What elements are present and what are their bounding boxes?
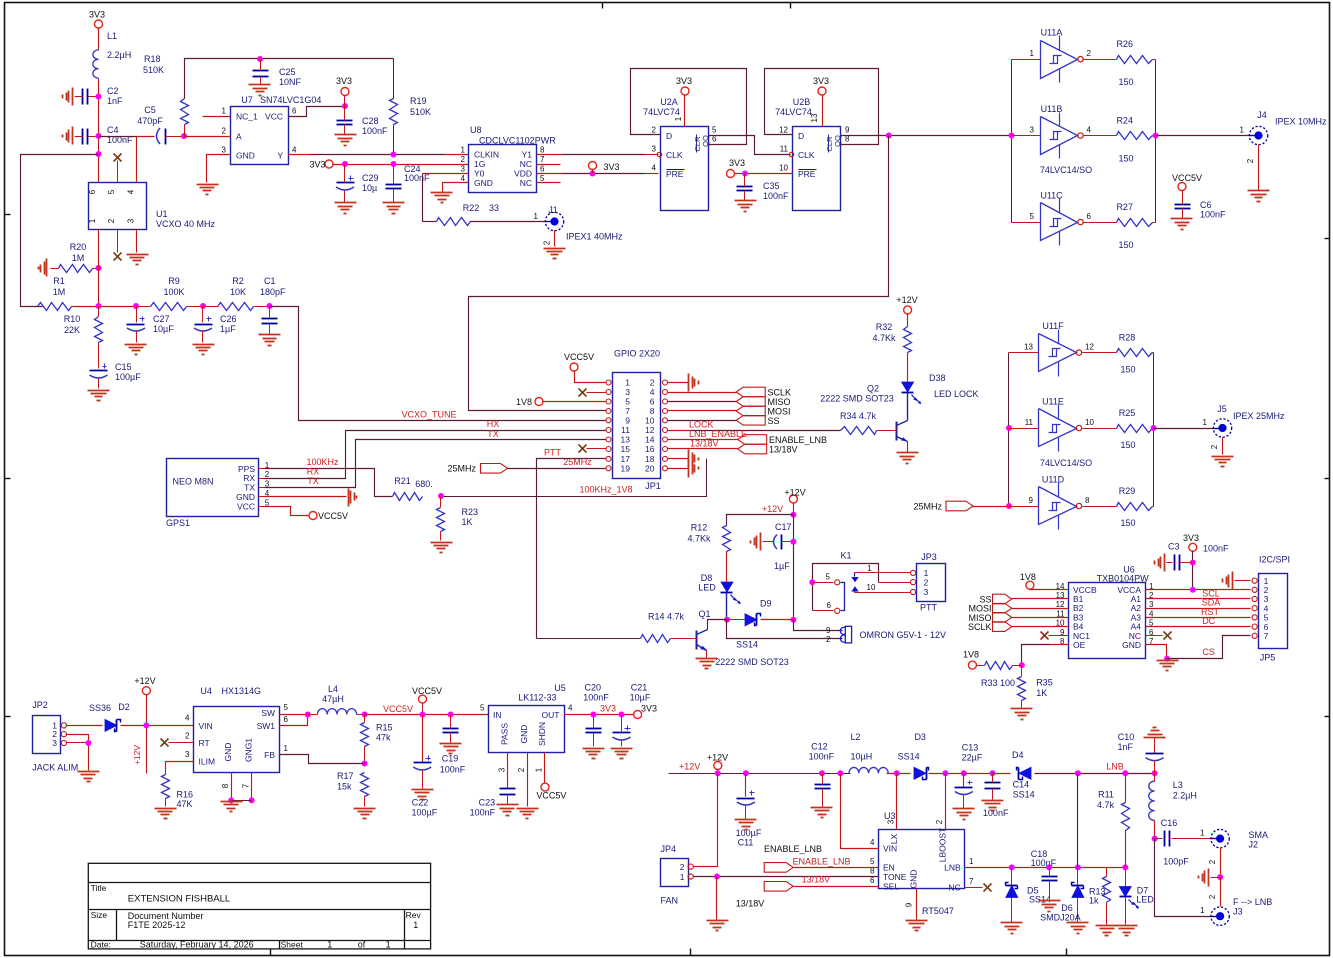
svg-text:150: 150 — [1120, 365, 1135, 375]
svg-text:R24: R24 — [1116, 116, 1133, 126]
svg-text:1: 1 — [88, 218, 97, 223]
pin 3 JP5 — [1252, 596, 1257, 601]
power 1V8 at R33 — [968, 661, 976, 669]
resistor R11 — [1122, 803, 1130, 831]
svg-text:C14: C14 — [1013, 780, 1030, 790]
svg-text:LED LOCK: LED LOCK — [934, 389, 979, 399]
svg-text:1: 1 — [284, 744, 289, 753]
svg-text:10K: 10K — [230, 287, 246, 297]
junction R11 rail node — [1122, 770, 1128, 776]
connector J3 F-LNB — [1211, 907, 1229, 925]
wire JP1 pin14 to ENABLE_LNB — [668, 439, 738, 441]
svg-text:PASS: PASS — [499, 723, 509, 745]
svg-text:VCC5V: VCC5V — [412, 686, 442, 696]
inductor L1 — [93, 50, 99, 78]
net flag 25MHz at U11D — [946, 501, 973, 511]
power VCC5V at JP1 pin1 — [570, 363, 578, 371]
svg-text:510K: 510K — [143, 65, 164, 75]
svg-text:of: of — [358, 940, 366, 950]
relay contact armature — [841, 583, 845, 611]
IC U1 VCXO 40 MHz — [89, 183, 147, 230]
svg-text:5: 5 — [480, 704, 485, 713]
svg-text:2222 SMD SOT23: 2222 SMD SOT23 — [820, 394, 894, 404]
capacitor C6 — [1175, 204, 1191, 206]
power +12V at relay — [789, 495, 797, 503]
svg-text:C29: C29 — [362, 173, 379, 183]
svg-text:Date:: Date: — [91, 940, 111, 950]
wire LBOOST pin2 to rail — [945, 774, 947, 830]
capacitor C26 polarized — [195, 324, 213, 326]
svg-text:TX: TX — [244, 483, 255, 493]
svg-text:2: 2 — [650, 378, 655, 388]
svg-text:PRE: PRE — [798, 169, 816, 179]
wire input U11A — [1012, 59, 1041, 61]
svg-text:4.7Kk: 4.7Kk — [872, 333, 896, 343]
wire 3V3 to L1 — [98, 28, 100, 51]
IC U2B 74LVC74 — [793, 127, 841, 211]
wire input U11B — [1012, 135, 1041, 137]
svg-text:100nF: 100nF — [470, 808, 496, 818]
svg-text:10µ: 10µ — [362, 183, 377, 193]
svg-text:8: 8 — [221, 783, 230, 788]
svg-text:150: 150 — [1118, 77, 1133, 87]
svg-text:R25: R25 — [1119, 408, 1136, 418]
svg-text:FB: FB — [264, 750, 275, 760]
svg-text:3: 3 — [625, 387, 630, 397]
svg-text:GPS1: GPS1 — [166, 518, 190, 528]
resistor R28 — [1117, 349, 1153, 357]
svg-text:NEO M8N: NEO M8N — [172, 477, 213, 487]
svg-text:SS14: SS14 — [898, 752, 920, 762]
net flag ENABLE_LNB at U3 — [764, 863, 793, 873]
capacitor C10 1nF — [1154, 738, 1156, 754]
junction C27 node — [133, 303, 139, 309]
svg-text:CLK: CLK — [798, 150, 815, 160]
svg-text:150: 150 — [1120, 440, 1135, 450]
junction D9 cathode node — [790, 617, 796, 623]
svg-text:10µH: 10µH — [851, 752, 873, 762]
svg-text:2: 2 — [265, 470, 270, 479]
diode D7 LED — [1125, 868, 1127, 887]
power 1V8 at JP1 pin5 — [535, 398, 543, 406]
svg-text:2: 2 — [652, 126, 657, 135]
connector JP4 FAN — [661, 859, 689, 887]
wire VDD to U2A PRE — [563, 173, 645, 175]
capacitor C17 1uF — [774, 535, 778, 550]
resistor R17 — [361, 773, 369, 797]
svg-text:+12V: +12V — [134, 676, 155, 686]
ground at U4 — [221, 801, 243, 803]
pin 4 JP5 — [1252, 606, 1257, 611]
svg-text:13/18V: 13/18V — [802, 875, 831, 885]
svg-text:IPEX 25MHz: IPEX 25MHz — [1233, 411, 1285, 421]
resistor R12 — [723, 526, 731, 552]
resistor R24 — [1117, 132, 1153, 140]
svg-text:C13: C13 — [962, 743, 979, 753]
wire JP4 pin1 to TONE — [694, 876, 879, 878]
ground at C29 — [335, 202, 357, 204]
svg-text:1: 1 — [386, 940, 391, 950]
wire C4 node to C5 area — [99, 136, 137, 138]
svg-text:Q2: Q2 — [867, 384, 879, 394]
svg-text:1: 1 — [1030, 49, 1035, 58]
wire +12V to R32 — [907, 314, 909, 327]
svg-text:150: 150 — [1118, 240, 1133, 250]
junction VCCA node — [1190, 587, 1196, 593]
power 3V3 (top left) — [95, 20, 103, 28]
diode D5 SS14 — [1011, 868, 1013, 885]
svg-text:FAN: FAN — [661, 896, 679, 906]
svg-text:IPEX1 40MHz: IPEX1 40MHz — [566, 232, 623, 242]
ground at J5 — [1212, 456, 1234, 458]
svg-text:100KHz: 100KHz — [306, 457, 339, 467]
wire J3 pin2 up — [1220, 878, 1222, 907]
svg-text:C21: C21 — [631, 683, 648, 693]
svg-text:10: 10 — [867, 583, 876, 592]
wire U8 NC pin7 stub — [537, 164, 561, 166]
svg-text:2: 2 — [185, 732, 190, 741]
ground at C22 — [412, 789, 434, 791]
diode D8 LED — [721, 582, 733, 592]
svg-text:4: 4 — [461, 174, 466, 183]
junction D6 rail node — [1075, 770, 1081, 776]
pin 1 JP2 — [61, 723, 66, 728]
wire GND pin2 — [527, 753, 529, 807]
svg-text:1: 1 — [1203, 418, 1208, 427]
pin 6 K1 — [835, 608, 840, 613]
svg-text:D2: D2 — [118, 702, 130, 712]
connector JP1 GPIO 2X20 — [613, 373, 661, 479]
wire U1 pin1 down — [98, 230, 100, 307]
svg-text:R32: R32 — [876, 322, 893, 332]
wire net VCXO_TUNE to JP1 pin9 — [270, 307, 606, 421]
pin 1 JP5 — [1252, 578, 1257, 583]
ground at JP2 — [78, 771, 100, 773]
wire JP1 pin2 to ground — [668, 382, 689, 384]
resistor R15 — [361, 723, 369, 747]
pin 17 JP1 — [606, 456, 611, 461]
svg-text:VCC5V: VCC5V — [318, 511, 348, 521]
IC U5 LK112-33 — [489, 706, 565, 753]
wire 25MHz flag to bus — [973, 506, 1009, 508]
svg-text:Y: Y — [277, 151, 283, 161]
svg-text:+12V: +12V — [679, 762, 700, 772]
svg-text:100nF: 100nF — [1200, 210, 1226, 220]
capacitor C28 — [337, 120, 353, 122]
IC GPS1 NEO M8N — [167, 459, 259, 517]
svg-text:VCC: VCC — [237, 502, 255, 512]
svg-text:5: 5 — [540, 174, 545, 183]
wire output U11D — [1083, 506, 1117, 508]
svg-text:K1: K1 — [840, 551, 851, 561]
pin 2 GPS1 stub — [259, 478, 265, 480]
wire R11 top lead — [1125, 774, 1127, 803]
ground at R13 — [1096, 925, 1118, 927]
wire GPS GND to ground — [265, 496, 347, 498]
svg-text:GND: GND — [1122, 640, 1141, 650]
svg-text:13/18V: 13/18V — [769, 445, 798, 455]
wire U8 VDD stub — [537, 173, 563, 175]
wire D2 to U4 VIN — [121, 725, 194, 727]
svg-text:J1: J1 — [548, 205, 558, 215]
svg-text:R17: R17 — [337, 771, 354, 781]
svg-text:25MHz: 25MHz — [913, 502, 942, 512]
capacitor C16 100pF — [1155, 838, 1163, 840]
inductor L3 2.2uH — [1149, 781, 1155, 820]
svg-text:C10: C10 — [1118, 732, 1135, 742]
junction R11 D7 node — [1122, 864, 1128, 870]
junction C1 node — [267, 303, 273, 309]
wire R27 to output bus — [1153, 222, 1156, 224]
junction R20 node — [96, 265, 102, 271]
svg-text:RT5047: RT5047 — [922, 906, 954, 916]
svg-text:SS14: SS14 — [1013, 790, 1035, 800]
capacitor C5 — [157, 128, 161, 144]
svg-text:2: 2 — [461, 155, 466, 164]
junction C26 node — [200, 303, 206, 309]
wire A1 to JP5 pin3 — [1146, 598, 1251, 600]
svg-text:C26: C26 — [220, 314, 237, 324]
svg-text:74LVC14/SO: 74LVC14/SO — [1040, 165, 1092, 175]
wire U2A CLK stub — [645, 154, 659, 156]
svg-text:470pF: 470pF — [137, 116, 163, 126]
junction C25 node — [257, 56, 263, 62]
junction SW node — [305, 712, 311, 718]
junction C11 node — [743, 770, 749, 776]
svg-text:VCC5V: VCC5V — [1172, 173, 1202, 183]
power 3V3 at U2B CLR — [818, 87, 826, 95]
wire L3 to C16 node — [1154, 821, 1156, 839]
ground at C27 — [125, 344, 147, 346]
svg-text:1µF: 1µF — [774, 561, 790, 571]
wire MOSI to B2 — [1012, 608, 1069, 610]
wire +12V rail to R12 — [727, 515, 794, 526]
diode D2 SS36 — [105, 719, 117, 731]
capacitor C35 — [737, 186, 753, 188]
svg-text:ENABLE_LNB: ENABLE_LNB — [764, 844, 822, 854]
svg-text:TX: TX — [487, 429, 499, 439]
ground at C15 — [88, 390, 110, 392]
wire input U11C — [1012, 222, 1041, 224]
IC U3 RT5047 — [879, 830, 965, 889]
svg-text:C22: C22 — [412, 798, 429, 808]
svg-text:2: 2 — [517, 767, 526, 772]
svg-text:C4: C4 — [107, 125, 119, 135]
wire Q1 emitter to ground — [706, 651, 708, 658]
wire U4 GNG1 pin7 — [251, 773, 253, 801]
svg-text:R19: R19 — [410, 96, 427, 106]
svg-text:C3: C3 — [1168, 542, 1180, 552]
inverter U11E 74LVC14 — [1039, 409, 1077, 447]
no-connect U1 pin2 bottom — [117, 230, 119, 253]
svg-text:100nF: 100nF — [1031, 858, 1057, 868]
pin 7 JP1 — [606, 409, 611, 414]
wire D3 to LBOOST node — [929, 773, 964, 775]
inverter U11D 74LVC14 — [1039, 487, 1077, 525]
svg-text:LK112-33: LK112-33 — [518, 693, 556, 703]
svg-text:SW: SW — [261, 708, 275, 718]
svg-text:I2C/SPI: I2C/SPI — [1259, 555, 1290, 565]
svg-text:3: 3 — [461, 165, 466, 174]
svg-text:Q1: Q1 — [698, 609, 710, 619]
svg-text:100µF: 100µF — [115, 372, 141, 382]
svg-text:R2: R2 — [232, 276, 244, 286]
power VCC5V at C6 — [1178, 183, 1186, 191]
pin 18 JP1 — [663, 456, 668, 461]
pin 1 JP3 — [911, 570, 916, 575]
resistor R29 — [1117, 503, 1153, 511]
ground at R20 — [46, 259, 48, 277]
svg-text:Y1: Y1 — [522, 150, 533, 160]
power 3V3 at U8 VDD — [589, 162, 597, 170]
wire C5 node to U7 A pin2 — [185, 136, 231, 138]
pin 5 JP5 — [1252, 615, 1257, 620]
inductor L4 47uH — [308, 714, 318, 716]
svg-text:A: A — [236, 132, 242, 142]
svg-text:R14 4.7k: R14 4.7k — [648, 612, 685, 622]
resistor R22 — [437, 218, 471, 226]
power 3V3 at U2A CLR — [681, 87, 689, 95]
pin 4 GPS1 stub — [259, 496, 265, 498]
svg-text:TX: TX — [307, 476, 319, 486]
junction C14 node — [990, 770, 996, 776]
svg-text:LED: LED — [698, 583, 716, 593]
ground at C1 — [259, 334, 281, 336]
svg-text:CS: CS — [1202, 647, 1215, 657]
svg-text:IN: IN — [493, 710, 502, 720]
ground at C18 — [1039, 900, 1061, 902]
svg-text:RT: RT — [199, 738, 210, 748]
ground at J4 — [1248, 190, 1270, 192]
wire R25 to output bus — [1153, 428, 1154, 430]
svg-text:100K: 100K — [163, 287, 184, 297]
svg-text:C1: C1 — [264, 276, 276, 286]
capacitor C1 — [262, 318, 278, 320]
junction VCXO supply tap — [96, 151, 102, 157]
wire output bus to J4 — [1156, 135, 1250, 137]
svg-text:Size: Size — [91, 910, 108, 920]
junction 3V3 C28 node — [342, 103, 348, 109]
svg-text:100nF: 100nF — [763, 191, 789, 201]
svg-text:3: 3 — [52, 738, 57, 748]
svg-text:100nF: 100nF — [440, 765, 466, 775]
svg-text:1: 1 — [535, 767, 544, 772]
svg-text:SS14: SS14 — [1029, 895, 1051, 905]
wire 25MHz output bus — [1153, 353, 1155, 507]
svg-text:DC: DC — [1202, 616, 1215, 626]
svg-text:SS: SS — [768, 416, 780, 426]
svg-text:2: 2 — [924, 577, 929, 587]
svg-text:RX: RX — [307, 467, 320, 477]
junction C4 node — [96, 133, 102, 139]
junction fan tone node — [714, 874, 720, 880]
ground at C26 — [193, 344, 215, 346]
junction R19 bottom node — [391, 152, 397, 158]
svg-text:15k: 15k — [337, 782, 352, 792]
svg-text:3: 3 — [265, 480, 270, 489]
svg-text:6: 6 — [870, 876, 875, 885]
wire JP5 pin1 to ground — [1235, 580, 1251, 582]
junction R21 R23 node — [438, 493, 444, 499]
wire U2A feedback loop Qbar to D — [631, 69, 747, 145]
junction U11E input node — [1006, 425, 1012, 431]
wire OE wire — [1022, 645, 1051, 666]
svg-text:4: 4 — [127, 189, 136, 194]
resistor R34 — [841, 427, 877, 435]
wire R28 to output bus — [1153, 352, 1154, 354]
junction +12V VIN node — [143, 722, 149, 728]
junction C12 node — [819, 770, 825, 776]
svg-text:100nF: 100nF — [809, 752, 835, 762]
diode D38 LED LOCK — [902, 382, 914, 392]
wire Q1 collector to relay coil pin2 — [727, 620, 843, 639]
svg-text:R1: R1 — [53, 276, 65, 286]
wire U7 VCC pin6 to 3V3 — [289, 107, 345, 117]
resistor R1 — [38, 303, 72, 311]
connector JP3 PTT — [917, 564, 946, 602]
connector JP2 JACK ALIM — [33, 716, 61, 754]
svg-text:SMA: SMA — [1249, 830, 1269, 840]
svg-text:1nF: 1nF — [107, 96, 123, 106]
wire D38 to Q2 collector — [907, 393, 909, 421]
svg-text:10NF: 10NF — [279, 77, 302, 87]
ground at D5 — [1001, 922, 1023, 924]
junction C29 node — [342, 161, 348, 167]
wire JP2 pins 2-3 to ground — [67, 735, 89, 771]
svg-text:+12V: +12V — [762, 504, 783, 514]
svg-text:9: 9 — [1029, 496, 1034, 505]
wire R29 to output bus — [1153, 506, 1154, 508]
svg-text:1: 1 — [625, 378, 630, 388]
svg-text:JP1: JP1 — [645, 481, 661, 491]
wire 3V3 to 1G line — [333, 164, 469, 166]
svg-text:47K: 47K — [177, 799, 193, 809]
wire D8 to junction — [726, 593, 728, 620]
svg-text:100nF: 100nF — [404, 173, 430, 183]
wire U4 FB wire — [280, 755, 365, 764]
title block frame — [88, 863, 430, 949]
svg-text:C35: C35 — [763, 181, 780, 191]
ground at C14 — [982, 800, 1004, 802]
svg-text:R21: R21 — [394, 476, 411, 486]
wire OE stub — [1051, 644, 1069, 646]
ground at C6 — [1171, 218, 1193, 220]
svg-text:3: 3 — [887, 819, 896, 824]
resistor R14 — [641, 635, 671, 643]
junction C5 out node — [181, 133, 187, 139]
svg-text:D38: D38 — [929, 373, 946, 383]
ground at C13 — [953, 808, 975, 810]
svg-text:VCXO 40 MHz: VCXO 40 MHz — [156, 219, 216, 229]
wire R18 top to 3V3 rail — [185, 59, 394, 99]
svg-text:VCC5V: VCC5V — [564, 352, 594, 362]
no-connect U3 NC pin7 — [965, 887, 983, 889]
wire SW1 pin6 — [280, 715, 308, 726]
wire input U11F — [1009, 352, 1039, 354]
wire 3V3 to VCCA column — [1192, 551, 1194, 590]
junction output bus mid node — [1151, 425, 1157, 431]
svg-text:6: 6 — [650, 397, 655, 407]
wire LX pin3 to rail — [896, 774, 898, 830]
svg-text:C19: C19 — [442, 754, 459, 764]
relay coil symbol — [845, 626, 851, 643]
wire C22 lead — [422, 715, 424, 763]
wire LNB out to J3 — [1155, 839, 1211, 917]
ground at R17 — [354, 808, 376, 810]
svg-text:R23: R23 — [462, 507, 479, 517]
wire R24 to output bus — [1153, 135, 1156, 137]
svg-text:D: D — [798, 131, 804, 141]
